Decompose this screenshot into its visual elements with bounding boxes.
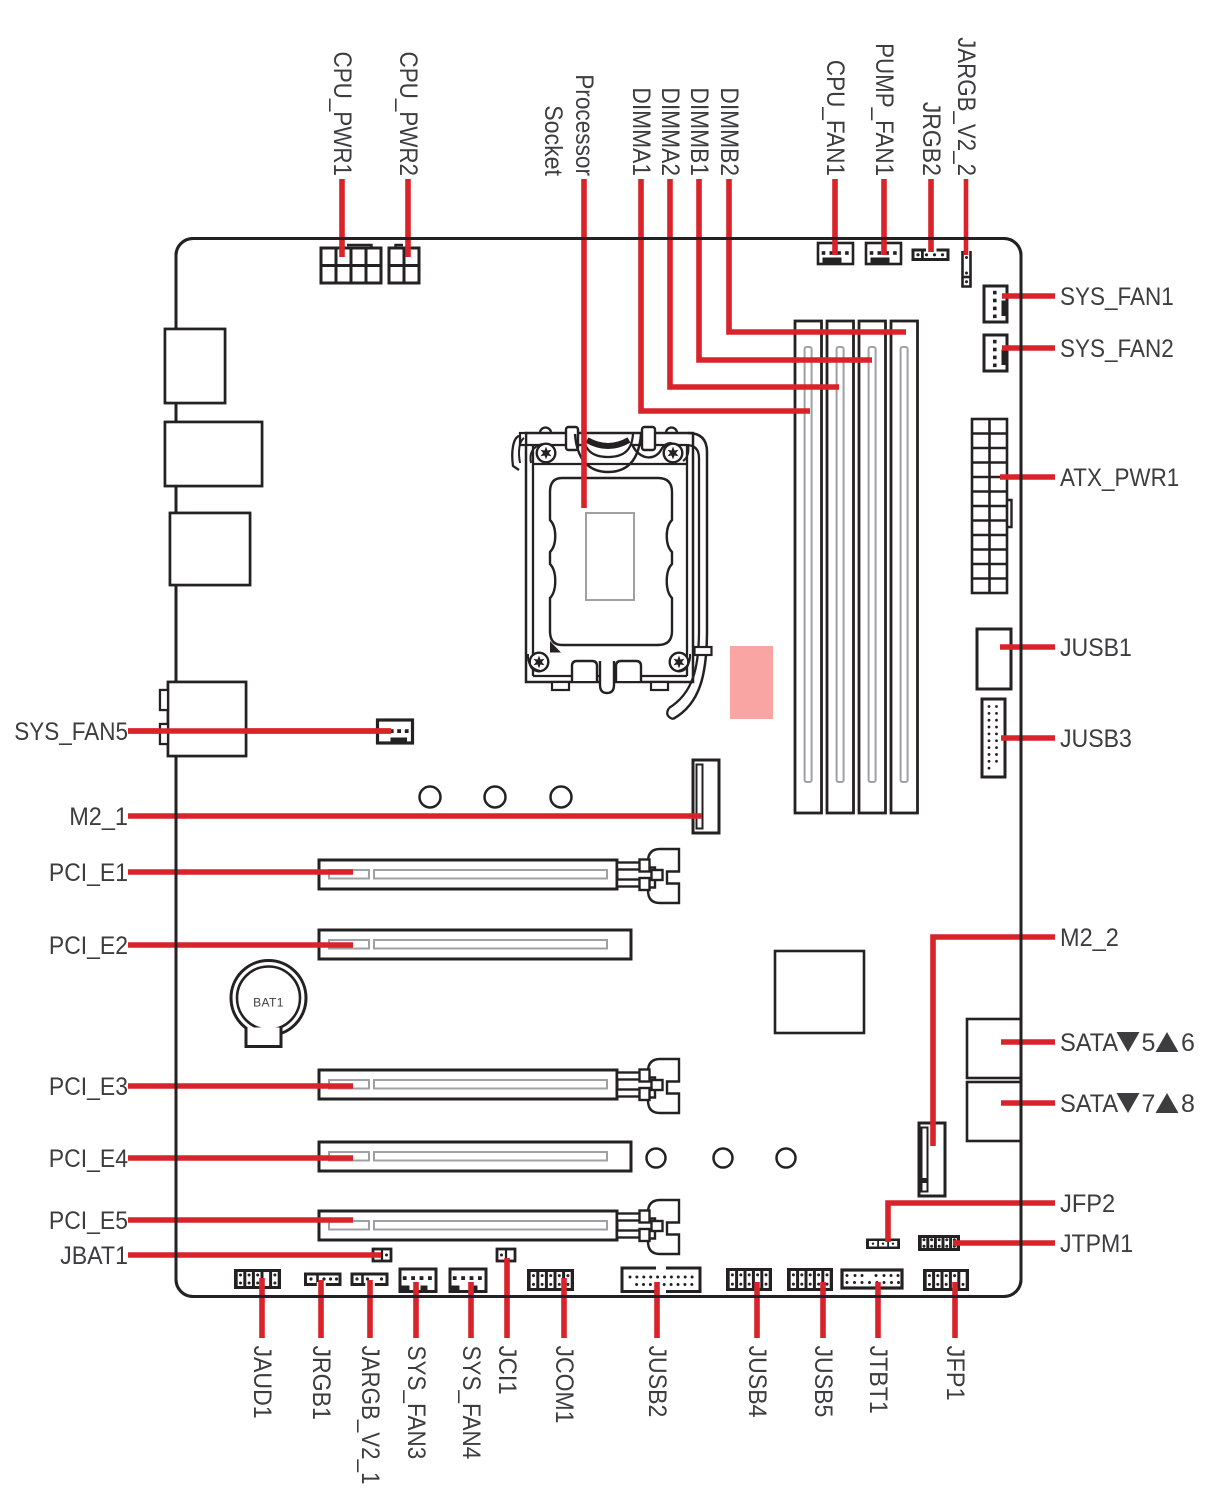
connector CPU_FAN1 xyxy=(818,243,853,264)
svg-text:7: 7 xyxy=(1142,1090,1156,1118)
leader PCI_E4 xyxy=(128,1155,353,1161)
connector PUMP_FAN1 xyxy=(866,243,901,264)
mounting holes row 2 xyxy=(647,1149,796,1168)
svg-text:PCI_E4: PCI_E4 xyxy=(49,1145,128,1173)
rear IO audio block overlay xyxy=(160,682,246,756)
leader JARGB_V2_1 xyxy=(367,1280,373,1338)
leader SYS_FAN2 xyxy=(1002,345,1055,351)
svg-text:SYS_FAN3: SYS_FAN3 xyxy=(402,1346,430,1460)
svg-text:M2_2: M2_2 xyxy=(1060,924,1119,952)
svg-text:CPU_PWR2: CPU_PWR2 xyxy=(394,52,422,176)
leader PUMP_FAN1 xyxy=(881,179,887,255)
svg-text:JTBT1: JTBT1 xyxy=(864,1346,892,1414)
svg-text:SATA: SATA xyxy=(1060,1029,1118,1057)
svg-text:SYS_FAN4: SYS_FAN4 xyxy=(457,1346,485,1460)
connector JRGB1 xyxy=(306,1274,341,1287)
connector JFP2 xyxy=(866,1239,900,1250)
leader SYS_FAN1 xyxy=(1002,293,1055,299)
svg-text:JFP1: JFP1 xyxy=(941,1346,969,1401)
M.2 slot M2_1 xyxy=(693,760,719,833)
leader DIMMB1 xyxy=(699,179,872,360)
leader JAUD1 xyxy=(259,1278,265,1338)
svg-text:SYS_FAN5: SYS_FAN5 xyxy=(14,718,128,746)
connector JFP1 xyxy=(923,1269,969,1291)
leader CPU_PWR2 xyxy=(405,179,411,257)
leader PCI_E1 xyxy=(128,869,353,875)
leader DIMMA2 xyxy=(670,179,839,387)
rear IO block 2 overlay xyxy=(165,422,262,486)
svg-text:JRGB1: JRGB1 xyxy=(307,1346,335,1420)
svg-text:JARGB_V2_2: JARGB_V2_2 xyxy=(952,37,980,176)
leader SYS_FAN5 xyxy=(128,728,391,734)
connector JUSB2 xyxy=(622,1266,700,1294)
svg-text:BAT1: BAT1 xyxy=(253,996,284,1010)
svg-text:CPU_PWR1: CPU_PWR1 xyxy=(328,52,356,176)
leader JRGB1 xyxy=(318,1280,324,1338)
leader JFP2 xyxy=(888,1203,1055,1242)
connector JUSB3 xyxy=(982,699,1005,777)
svg-text:M2_1: M2_1 xyxy=(69,803,128,831)
leader CPU_PWR1 xyxy=(339,179,345,257)
leader SYS_FAN5 overlay xyxy=(128,728,391,734)
svg-text:5: 5 xyxy=(1142,1029,1156,1057)
PCIe slot PCI_E5 xyxy=(319,1200,679,1254)
battery BAT1 xyxy=(231,961,306,1047)
leader PCI_E3 xyxy=(128,1083,353,1089)
leader M2_1 xyxy=(128,813,702,819)
leader JFP1 xyxy=(952,1282,958,1338)
svg-text:JTPM1: JTPM1 xyxy=(1060,1230,1133,1258)
SATA ports 7/8 xyxy=(967,1082,1021,1141)
connector JCOM1 xyxy=(527,1269,574,1291)
svg-text:PUMP_FAN1: PUMP_FAN1 xyxy=(870,43,898,176)
svg-text:PCI_E3: PCI_E3 xyxy=(49,1073,128,1101)
SATA ports 5/6 xyxy=(967,1019,1021,1078)
connector SYS_FAN4 xyxy=(450,1269,486,1292)
connector JAUD1 xyxy=(234,1269,281,1289)
DIMM slot DIMMB2 xyxy=(891,321,918,813)
svg-text:JBAT1: JBAT1 xyxy=(60,1242,128,1270)
motherboard outline xyxy=(176,239,1021,1297)
leader JBAT1 xyxy=(128,1252,381,1258)
connector SYS_FAN5 xyxy=(378,720,413,743)
leader JUSB1 xyxy=(1000,644,1055,650)
connector ATX_PWR1 xyxy=(972,419,1012,593)
connector JTBT1 xyxy=(842,1270,902,1288)
DIMM slot DIMMA2 xyxy=(827,321,854,813)
leader JUSB2 xyxy=(654,1282,660,1338)
CPU socket (Processor Socket) xyxy=(512,427,707,719)
leader DIMMB2 xyxy=(729,179,906,332)
leader JRGB2 xyxy=(928,179,934,252)
connector CPU_PWR1 xyxy=(321,245,381,283)
svg-text:JUSB1: JUSB1 xyxy=(1060,634,1132,662)
svg-text:6: 6 xyxy=(1181,1029,1195,1057)
svg-text:JUSB3: JUSB3 xyxy=(1060,725,1132,753)
M.2 slot M2_2 xyxy=(919,1123,945,1196)
leader JUSB5 xyxy=(820,1282,826,1338)
connector CPU_PWR2 xyxy=(389,245,419,283)
leader JARGB_V2_2 xyxy=(964,179,969,255)
svg-text:Processor: Processor xyxy=(570,74,598,176)
socket load plate xyxy=(550,478,672,645)
socket die area xyxy=(586,513,634,600)
svg-text:JUSB4: JUSB4 xyxy=(743,1346,771,1418)
connector JRGB2 xyxy=(913,248,948,260)
svg-text:JUSB2: JUSB2 xyxy=(643,1346,671,1418)
leader SATA 5/6 xyxy=(1001,1039,1055,1045)
svg-text:CPU_FAN1: CPU_FAN1 xyxy=(821,60,849,176)
connector JCI1 xyxy=(497,1249,515,1261)
leader SYS_FAN4 xyxy=(468,1282,474,1338)
svg-text:PCI_E5: PCI_E5 xyxy=(49,1207,128,1235)
label SATA 7/8 xyxy=(1060,1090,1195,1118)
connector SYS_FAN1 xyxy=(984,286,1007,322)
connector JUSB1 xyxy=(977,629,1011,689)
svg-text:PCI_E2: PCI_E2 xyxy=(49,932,128,960)
leader CPU_FAN1 xyxy=(832,179,838,255)
connector JARGB_V2_1 xyxy=(352,1274,387,1287)
connector JARGB_V2_2 xyxy=(963,251,971,287)
leader DIMMA1 xyxy=(641,179,810,411)
highlight block xyxy=(730,646,773,719)
leader SATA 7/8 xyxy=(1001,1100,1055,1106)
svg-text:JRGB2: JRGB2 xyxy=(917,102,945,176)
connector JTPM1 xyxy=(918,1235,960,1251)
svg-text:Socket: Socket xyxy=(539,105,567,176)
svg-text:SYS_FAN2: SYS_FAN2 xyxy=(1060,335,1174,363)
rear IO block 1 xyxy=(165,329,225,403)
connector JUSB4 xyxy=(726,1268,772,1291)
svg-text:8: 8 xyxy=(1181,1090,1195,1118)
leader JCI1 xyxy=(504,1258,510,1338)
socket screws xyxy=(528,444,690,672)
svg-text:SYS_FAN1: SYS_FAN1 xyxy=(1060,283,1174,311)
svg-text:JAUD1: JAUD1 xyxy=(248,1346,276,1419)
socket bottom cutouts xyxy=(552,647,712,693)
leader PCI_E2 xyxy=(128,942,353,948)
socket pin1 triangle xyxy=(550,641,561,653)
leader PCI_E5 xyxy=(128,1217,353,1223)
svg-text:JCOM1: JCOM1 xyxy=(550,1346,578,1424)
leader JUSB3 xyxy=(1001,735,1055,741)
svg-text:SATA: SATA xyxy=(1060,1090,1118,1118)
rear IO block 3 overlay xyxy=(170,513,250,585)
leader JCOM1 xyxy=(561,1278,567,1338)
rear IO block 3 xyxy=(170,513,250,585)
svg-text:DIMMA1: DIMMA1 xyxy=(627,87,655,176)
DIMM slot DIMMA1 xyxy=(795,321,822,813)
board outline overlay xyxy=(176,239,1021,1297)
svg-text:JFP2: JFP2 xyxy=(1060,1190,1115,1218)
connector JBAT1 xyxy=(373,1249,391,1261)
DIMM slot DIMMB1 xyxy=(859,321,886,813)
leader Processor Socket xyxy=(581,179,587,508)
svg-text:JCI1: JCI1 xyxy=(493,1346,521,1395)
PCIe slot PCI_E3 xyxy=(319,1059,679,1113)
leader JTPM1 xyxy=(953,1240,1055,1246)
leader JUSB4 xyxy=(754,1282,760,1338)
mounting holes row 1 xyxy=(420,787,572,808)
connector SYS_FAN2 xyxy=(984,335,1007,371)
svg-text:DIMMB1: DIMMB1 xyxy=(685,87,713,176)
PCIe slot PCI_E2 xyxy=(319,930,631,959)
chipset block xyxy=(775,951,864,1033)
leader SYS_FAN3 xyxy=(413,1282,419,1338)
connector SYS_FAN3 xyxy=(400,1269,436,1292)
svg-text:JARGB_V2_1: JARGB_V2_1 xyxy=(356,1346,384,1485)
connector JUSB5 xyxy=(787,1268,833,1291)
svg-text:DIMMB2: DIMMB2 xyxy=(715,87,743,176)
PCIe slot PCI_E4 xyxy=(319,1142,631,1171)
leader ATX_PWR1 xyxy=(1000,474,1055,480)
rear IO block 2 xyxy=(165,422,262,486)
rear IO block 1 overlay xyxy=(165,329,225,403)
svg-text:DIMMA2: DIMMA2 xyxy=(656,87,684,176)
svg-text:JUSB5: JUSB5 xyxy=(809,1346,837,1418)
leader JTBT1 xyxy=(875,1282,881,1338)
label SATA 5/6 xyxy=(1060,1029,1195,1057)
rear IO audio block xyxy=(160,682,246,756)
PCIe slot PCI_E1 xyxy=(319,849,679,903)
svg-text:ATX_PWR1: ATX_PWR1 xyxy=(1060,464,1179,492)
svg-text:PCI_E1: PCI_E1 xyxy=(49,859,128,887)
leader M2_2 xyxy=(933,937,1055,1146)
